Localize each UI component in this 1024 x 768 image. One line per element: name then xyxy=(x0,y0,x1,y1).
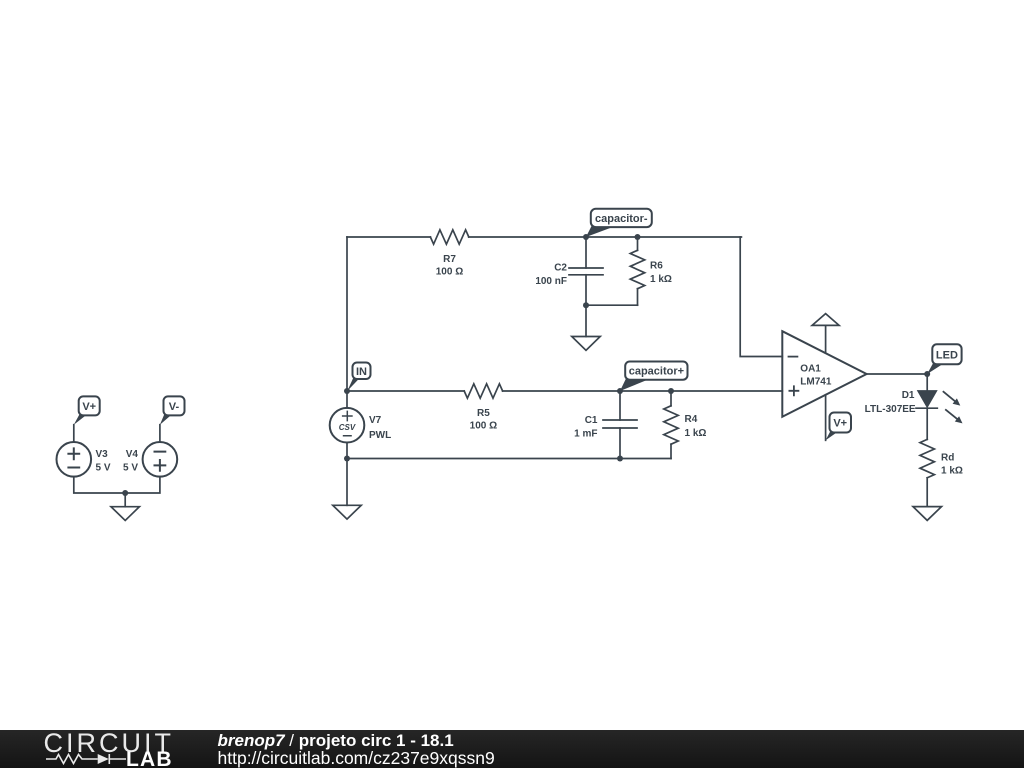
svg-text:1 kΩ: 1 kΩ xyxy=(941,465,963,476)
svg-text:Rd: Rd xyxy=(941,453,954,464)
svg-text:V3: V3 xyxy=(96,449,109,460)
svg-text:D1: D1 xyxy=(902,390,915,401)
svg-text:100 Ω: 100 Ω xyxy=(436,267,463,278)
svg-text:LAB: LAB xyxy=(126,748,173,768)
svg-text:V7: V7 xyxy=(369,415,382,426)
svg-text:1 kΩ: 1 kΩ xyxy=(685,428,707,439)
svg-text:100 nF: 100 nF xyxy=(535,276,567,287)
svg-text:R5: R5 xyxy=(477,408,490,419)
svg-text:capacitor-: capacitor- xyxy=(595,213,648,225)
svg-text:V+: V+ xyxy=(82,401,96,413)
svg-text:capacitor+: capacitor+ xyxy=(629,366,684,378)
svg-text:LTL-307EE: LTL-307EE xyxy=(865,404,916,415)
svg-text:V-: V- xyxy=(169,401,180,413)
svg-text:brenop7 / projeto circ 1 - 18.: brenop7 / projeto circ 1 - 18.1 xyxy=(218,731,454,750)
svg-text:C2: C2 xyxy=(554,263,567,274)
svg-text:V+: V+ xyxy=(833,418,847,430)
svg-text:R6: R6 xyxy=(650,261,663,272)
svg-text:http://circuitlab.com/cz237e9x: http://circuitlab.com/cz237e9xqssn9 xyxy=(218,748,495,768)
svg-text:R4: R4 xyxy=(685,414,698,425)
svg-text:5 V: 5 V xyxy=(96,462,111,473)
svg-text:OA1: OA1 xyxy=(800,363,821,374)
svg-text:LED: LED xyxy=(936,349,958,361)
svg-text:1 mF: 1 mF xyxy=(574,429,597,440)
svg-text:R7: R7 xyxy=(443,254,456,265)
svg-text:LM741: LM741 xyxy=(800,377,832,388)
svg-text:V4: V4 xyxy=(126,449,139,460)
svg-text:100 Ω: 100 Ω xyxy=(470,421,497,432)
svg-text:CSV: CSV xyxy=(339,423,356,432)
svg-text:IN: IN xyxy=(356,366,367,378)
svg-text:1 kΩ: 1 kΩ xyxy=(650,274,672,285)
svg-text:PWL: PWL xyxy=(369,430,391,441)
svg-text:C1: C1 xyxy=(585,415,598,426)
svg-text:5 V: 5 V xyxy=(123,462,138,473)
